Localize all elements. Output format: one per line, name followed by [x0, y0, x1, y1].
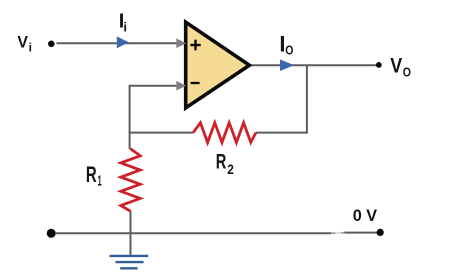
svg-text:i: i	[29, 41, 32, 55]
svg-text:R: R	[216, 150, 227, 173]
svg-text:R: R	[86, 162, 97, 187]
svg-text:2: 2	[227, 161, 234, 177]
svg-text:1: 1	[98, 173, 102, 190]
svg-text:O: O	[285, 43, 293, 57]
svg-text:i: i	[123, 20, 127, 35]
svg-text:V: V	[390, 54, 402, 77]
svg-text:O: O	[403, 65, 411, 80]
svg-text:0 V: 0 V	[353, 206, 378, 225]
svg-text:V: V	[17, 32, 28, 51]
